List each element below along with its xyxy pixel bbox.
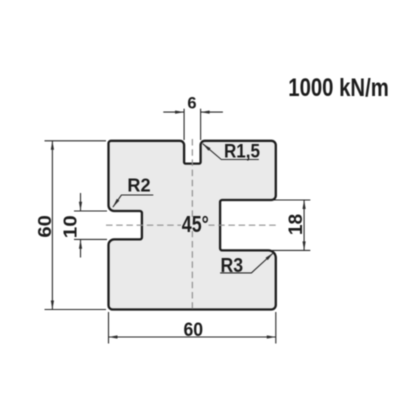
svg-text:60: 60 bbox=[184, 320, 204, 341]
arrow 6 left bbox=[175, 111, 184, 114]
leader R2 bbox=[113, 195, 153, 207]
leader R3 bbox=[220, 253, 273, 273]
extension line notch top bbox=[272, 199, 310, 201]
svg-text:R2: R2 bbox=[127, 175, 150, 195]
extension line notch bottom bbox=[272, 249, 310, 251]
svg-text:6: 6 bbox=[187, 95, 196, 113]
centerline vertical bbox=[191, 139, 193, 310]
arrow 60-left bottom bbox=[51, 301, 54, 310]
centerline horizontal bbox=[106, 224, 276, 226]
arrow 60-bottom left bbox=[109, 335, 118, 338]
extension line left-slot top bbox=[74, 210, 107, 212]
knockout behind 45 label bbox=[181, 220, 209, 231]
arrow 10 bottom bbox=[79, 240, 82, 249]
svg-text:1000 kN/m: 1000 kN/m bbox=[288, 74, 389, 102]
extension line slot-left wall bbox=[183, 109, 185, 140]
dimension line 60 bottom bbox=[109, 336, 276, 338]
extension line bottom-left bbox=[45, 309, 107, 311]
dimension line 60 left bbox=[51, 141, 53, 310]
extension line top-left bbox=[45, 140, 107, 142]
arrow R3 bbox=[266, 253, 274, 260]
dimension line 6 left part bbox=[163, 111, 184, 113]
extension line bottom dim left bbox=[108, 312, 110, 344]
dimension line 6 right part bbox=[201, 111, 223, 113]
svg-text:10: 10 bbox=[60, 215, 80, 238]
svg-text:R1,5: R1,5 bbox=[224, 142, 260, 163]
dimension line 18 bbox=[303, 200, 305, 250]
extension line slot-right wall bbox=[200, 109, 202, 140]
svg-text:R3: R3 bbox=[221, 255, 244, 277]
arrow 10 top bbox=[79, 202, 82, 211]
arrow R1,5 bbox=[203, 144, 211, 151]
extension line bottom dim right bbox=[275, 312, 277, 344]
svg-text:60: 60 bbox=[34, 215, 55, 238]
arrow 18 bottom bbox=[303, 241, 306, 250]
arrow 18 top bbox=[303, 200, 306, 209]
die body outline bbox=[109, 141, 276, 310]
arrow R2 bbox=[113, 199, 119, 207]
svg-text:45°: 45° bbox=[182, 211, 209, 237]
dimension arrow line 10 top bbox=[80, 193, 82, 211]
extension line left-slot bottom bbox=[74, 238, 107, 240]
leader R1,5 bbox=[203, 144, 259, 160]
arrow 60-left top bbox=[51, 141, 54, 150]
svg-text:18: 18 bbox=[286, 214, 307, 235]
arrow 6 right bbox=[201, 111, 210, 114]
arrow 60-bottom right bbox=[267, 335, 276, 338]
dimension arrow line 10 bottom bbox=[80, 240, 82, 258]
